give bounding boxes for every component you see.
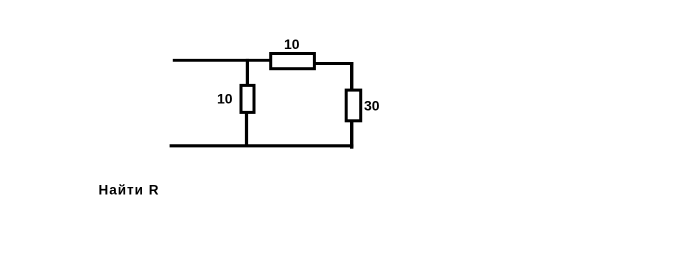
wire right vertical upper to R3 — [350, 62, 353, 90]
svg-text:10: 10 — [217, 91, 233, 107]
wire bottom horizontal — [170, 144, 354, 147]
wire junction branch down to R2 — [246, 59, 249, 86]
svg-text:30: 30 — [364, 98, 380, 114]
wire top horizontal — [173, 59, 271, 62]
resistor R2 10 (left vertical) — [241, 85, 254, 112]
svg-text:Найти R: Найти R — [99, 183, 160, 198]
resistor R1 10 (top horizontal) — [271, 54, 315, 69]
svg-text:10: 10 — [284, 36, 300, 52]
wire from R1 right toward corner — [314, 62, 353, 65]
wire right vertical lower from R3 to bottom — [350, 121, 353, 149]
resistor R3 30 (right vertical) — [346, 90, 361, 121]
wire left vertical lower from R2 to bottom — [245, 113, 248, 148]
